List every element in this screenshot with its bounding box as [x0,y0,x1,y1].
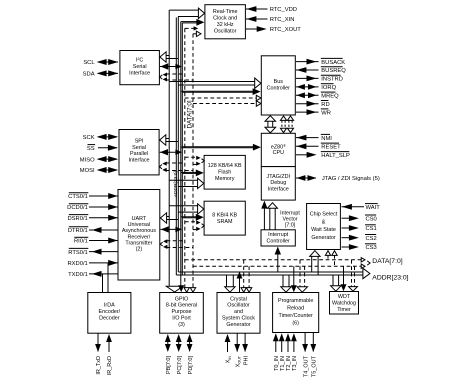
svg-text:32 kHz: 32 kHz [217,22,234,28]
wire I2C bidirectional to control pair [160,63,182,69]
svg-text:MOSI: MOSI [80,168,95,174]
svg-text:XIN: XIN [226,356,232,364]
signal RTS0/1 [68,248,117,255]
svg-text:Bus: Bus [274,79,284,85]
bus DATA horizontal dashed [185,258,370,269]
svg-text:Encoder/: Encoder/ [99,309,121,315]
signal X<tspan font-size="3.6" dy="1.2">OUT</tspan> [234,333,241,367]
wire ADDR bus to SRAM (hollow arrow) [169,204,204,214]
wire DATA dashes to crystal oscillator [241,260,252,292]
bus ADDR horizontal channel [176,268,370,278]
wire bus to CPU (filled arrow) [182,144,261,151]
block GPIO port [160,293,204,334]
svg-text:Programmable: Programmable [278,298,313,304]
signal JTAG / ZDI Signals (5) [296,175,380,182]
wire control to SRAM (filled arrow) [181,214,204,221]
svg-text:Interrupt: Interrupt [268,232,289,238]
svg-text:PD[7:0]: PD[7:0] [188,356,194,375]
wire DATA dashes to RTC [185,26,201,36]
svg-text:Controller: Controller [266,238,290,244]
signal MISO [80,156,118,163]
signal BUSACK [296,58,345,65]
signal T3_IN [291,333,298,371]
signal IR_RxD [106,334,113,375]
block SPI serial parallel interface [119,130,159,175]
signal CTS0/1 [68,193,118,200]
signal MREQ [296,92,339,99]
svg-text:PC[7:0]: PC[7:0] [177,356,183,375]
wire ADDR bus to WDT (hollow down arrow) [331,275,341,291]
svg-text:8 KB/4 KB: 8 KB/4 KB [212,212,237,218]
wire DATA dashes to chip select [325,251,337,266]
svg-text:(6): (6) [292,321,299,327]
svg-text:(2): (2) [136,247,143,253]
signal HALT_SLP [296,152,350,159]
svg-text:Chip Select: Chip Select [310,212,338,218]
block bus controller [261,56,295,115]
signal DSR0/1 [67,215,117,222]
block I2C serial interface [120,51,159,85]
wire crystal oscillator to bus (filled up arrow) [237,272,243,293]
svg-text:I²C: I²C [136,58,143,64]
signal CS0 [342,215,377,222]
svg-text:Timer/Counter: Timer/Counter [279,313,313,319]
svg-text:System Clock: System Clock [222,316,255,322]
svg-text:Oscillator: Oscillator [227,303,250,309]
wire DATA to WDT (filled down arrow) [341,266,347,291]
signal T4_OUT [302,333,309,378]
wire bus controller to CPU dashed connector 1 [280,116,286,133]
svg-text:and: and [234,309,243,315]
signal RTC_XOUT [246,26,301,33]
wire DATA dashes to bus controller [185,95,261,106]
block JTAG/ZDI debug interface [261,167,295,201]
svg-text:MISO: MISO [80,157,95,163]
signal DTR0/1 [68,227,118,234]
wire ADDR bus to flash (hollow arrow) [169,178,204,188]
block chip select and wait state generator [307,204,341,250]
svg-text:CPU: CPU [273,150,284,156]
svg-text:Oscillator: Oscillator [214,29,237,35]
signal SDA [83,70,119,77]
wire control to GPIO (filled down arrow) [178,285,184,292]
svg-text:GPIO: GPIO [175,296,188,302]
svg-text:SCL: SCL [83,60,95,66]
signal WR [296,109,331,116]
svg-text:(3): (3) [178,322,185,328]
svg-text:DCD0/1: DCD0/1 [67,205,88,211]
svg-text:RTC_XOUT: RTC_XOUT [270,27,302,33]
svg-text:Crystal: Crystal [230,296,247,302]
wire SPI bidirectional to control pair [160,149,182,155]
signal RTC_VDD [246,6,297,13]
svg-text:WDT: WDT [338,294,351,300]
svg-text:I/O Port: I/O Port [172,316,191,322]
wire DATA dashes to WDT (hollow down arrow) [349,260,358,291]
bus DATA vertical dashed pair [185,28,193,288]
svg-text:T4_OUT: T4_OUT [303,355,309,377]
svg-text:HALT_SLP: HALT_SLP [321,153,350,159]
wire ADDR bus to timer (hollow down arrow) [281,275,291,292]
svg-text:RTS0/1: RTS0/1 [68,250,88,256]
signal RESET [296,143,341,150]
svg-text:RXD0/1: RXD0/1 [67,261,87,267]
svg-text:JTAG/ZDI: JTAG/ZDI [267,174,291,180]
svg-text:Controller: Controller [267,86,291,92]
signal RTC_XIN [246,16,294,23]
signal WAIT [342,204,381,211]
svg-text:&: & [322,219,326,225]
signal SS [87,145,118,152]
svg-text:T3_IN: T3_IN [292,356,298,371]
svg-text:Debug: Debug [270,180,286,186]
svg-text:Timer: Timer [337,307,351,313]
svg-text:DATA[7:0]: DATA[7:0] [372,258,402,265]
svg-text:[7:0]: [7:0] [285,223,296,229]
wire bus to interrupt controller (filled up arrow) [275,247,281,273]
svg-text:Asynchronous: Asynchronous [122,228,156,234]
signal X<tspan font-size="3.6" dy="1.2">IN</tspan> [225,334,232,363]
svg-text:Flash: Flash [218,169,231,175]
svg-text:WAIT: WAIT [366,205,381,211]
wire control pair to RTC (filled arrow) [181,19,205,26]
svg-text:XOUT: XOUT [235,355,241,367]
svg-text:SDA: SDA [83,72,95,78]
block interrupt controller [261,230,295,246]
block IrDA encoder/decoder [88,293,131,334]
wire DATA dashes to UART (converging arrows) [160,239,193,249]
svg-text:T5_OUT: T5_OUT [312,355,318,377]
svg-text:SPI: SPI [135,139,144,145]
svg-text:PHI: PHI [243,356,249,366]
svg-text:DTR0/1: DTR0/1 [68,228,88,234]
block WDT watchdog timer [330,292,359,315]
svg-text:CS3: CS3 [366,245,377,251]
wire interrupt controller to JTAG (filled arrow) [261,201,267,230]
svg-text:Purpose: Purpose [171,309,191,315]
wire DATA dashes to GPIO [184,288,196,293]
wire ADDR bus to GPIO (hollow down arrow) [166,286,183,292]
svg-text:JTAG / ZDI Signals (5): JTAG / ZDI Signals (5) [322,176,380,182]
signal MOSI [80,167,118,174]
wire TXD0/1 to IrDA [102,274,104,293]
svg-text:WR: WR [321,110,331,116]
svg-text:Memory: Memory [215,176,235,182]
signal RI0/1 [74,237,118,244]
wire ADDR bus to bus controller (hollow) [169,78,261,88]
block eZ80 CPU [261,133,295,166]
svg-text:IORQ: IORQ [321,85,336,91]
wire ADDR bus to RTC (hollow arrow) [169,8,204,18]
svg-text:ADDR[23:0]: ADDR[23:0] [173,171,179,198]
wire ADDR bus to chip select (hollow up arrow) [310,251,320,275]
wire ADDR bus to UART (hollow arrow) [160,213,178,223]
svg-text:RTC_XIN: RTC_XIN [270,17,295,23]
signal TXD0/1 [68,271,117,278]
svg-text:TXD0/1: TXD0/1 [68,272,88,278]
wire control to flash (filled arrow) [181,170,204,177]
svg-text:CS2: CS2 [366,236,377,242]
signal CS1 [342,225,377,232]
wire DATA dashes to SRAM (converging arrows) [185,220,205,231]
wire ADDR bus to crystal oscillator (hollow down arrow) [225,275,235,292]
svg-text:Parallel: Parallel [130,151,148,157]
wire DATA dashes to flash (converging arrows) [185,156,205,166]
wire UART bidirectional to control pair [161,226,182,232]
svg-text:RTC_VDD: RTC_VDD [270,7,297,13]
signal T1_IN [279,333,286,371]
svg-text:Receiver/: Receiver/ [128,234,151,240]
svg-text:PB[7:0]: PB[7:0] [166,356,172,375]
svg-text:Generator: Generator [226,322,250,328]
block flash memory [204,155,245,189]
signal SCK [83,134,119,141]
block crystal oscillator and system clock generator [217,293,260,334]
signal RD [296,101,330,108]
wire RXD0/1 to IrDA [107,263,109,293]
wire DATA dashes to timer (hollow down arrow) [297,260,307,292]
wire DATA dashes to I2C (converging arrows) [160,73,193,82]
svg-text:DATA[7:0]: DATA[7:0] [186,100,193,128]
svg-text:BUSREQ: BUSREQ [321,68,346,74]
signal PHI [242,333,249,365]
block programmable reload timer/counter [273,293,319,333]
signal IR_TxD [95,333,102,374]
svg-text:Real-Time: Real-Time [213,9,238,15]
svg-text:RESET: RESET [321,145,341,151]
svg-text:IR_RxD: IR_RxD [107,356,113,375]
signal T5_OUT [310,333,317,378]
block SRAM [204,201,245,235]
svg-text:Reload: Reload [287,306,304,312]
signal NMI [296,134,332,141]
svg-text:Serial: Serial [133,64,147,70]
svg-text:128 KB/64 KB: 128 KB/64 KB [208,163,242,169]
signal PD[7:0] [187,334,194,374]
svg-text:Decoder: Decoder [99,315,120,321]
bus ADDR vertical channel [169,10,178,286]
svg-text:SRAM: SRAM [217,219,233,225]
wire control to bus controller (filled) [181,88,261,95]
signal INSTRD [296,75,343,82]
signal DCD0/1 [67,204,118,211]
wire ADDR bus to I2C (hollow arrow) [160,52,178,62]
signal BUSREQ [296,67,346,74]
svg-text:CTS0/1: CTS0/1 [68,194,88,200]
svg-text:Serial: Serial [132,145,146,151]
signal CS3 [342,244,377,251]
svg-text:IrDA: IrDA [104,303,115,309]
svg-text:Interface: Interface [268,187,289,193]
svg-text:T1_IN: T1_IN [280,356,286,371]
svg-text:UART: UART [132,216,147,222]
signal T0_IN [273,333,280,371]
svg-text:MREQ: MREQ [321,94,339,100]
svg-text:Watchdog: Watchdog [332,301,356,307]
svg-text:RI0/1: RI0/1 [74,239,88,245]
bus control line pair vertical [181,22,183,289]
signal T2_IN [285,333,292,371]
wire interrupt vector to JTAG (hollow arrow) [268,203,278,230]
signal PB[7:0] [165,334,172,374]
wire bus controller to CPU (hollow double arrow) [265,116,276,133]
signal PC[7:0] [176,334,183,374]
svg-text:Wait State: Wait State [311,227,336,233]
svg-text:ADDR[23:0]: ADDR[23:0] [372,274,408,281]
svg-text:INSTRD: INSTRD [321,77,343,83]
svg-text:Interface: Interface [129,71,150,77]
block RTC oscillator U-RTC [205,5,246,39]
svg-text:DSR0/1: DSR0/1 [67,216,87,222]
svg-text:Generator: Generator [311,235,335,241]
svg-text:IR_TxD: IR_TxD [96,356,102,375]
svg-text:RD: RD [321,102,329,108]
block UART [118,190,160,281]
wire DATA to timer (filled down arrow) [291,266,297,292]
svg-text:Universal: Universal [128,222,150,228]
svg-text:BUSACK: BUSACK [321,60,345,66]
svg-text:CS1: CS1 [366,226,377,232]
signal CS2 [342,235,377,242]
svg-text:Transmitter: Transmitter [125,240,152,246]
svg-text:SS: SS [87,146,95,152]
wire DATA dashes to SPI (converging arrows) [159,162,193,173]
svg-text:Clock and: Clock and [213,16,237,22]
wire ADDR bus to SPI (hollow arrow) [160,135,178,145]
svg-text:CS0: CS0 [366,216,377,222]
svg-text:SCK: SCK [83,135,95,141]
svg-text:8-bit General: 8-bit General [166,303,197,309]
signal SCL [83,59,118,66]
signal IORQ [296,84,337,91]
svg-text:Interface: Interface [129,157,150,163]
signal RXD0/1 [67,260,117,267]
svg-text:NMI: NMI [321,136,332,142]
wire bus controller to CPU dashed connector 2 [287,116,293,133]
